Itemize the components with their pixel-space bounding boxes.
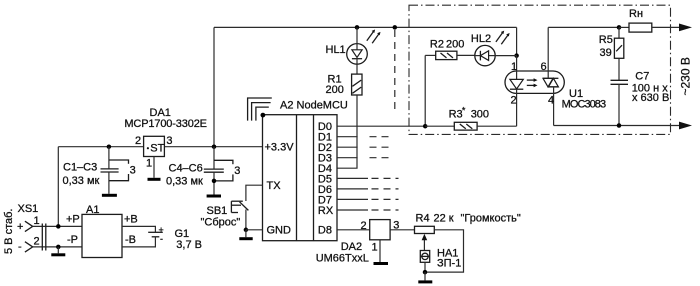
svg-text:C7: C7	[635, 70, 649, 82]
node top bus / HL1	[355, 25, 360, 30]
svg-text:-B: -B	[125, 234, 136, 246]
wire U1 pin6 to Rn	[548, 26, 619, 28]
wire riser from top bus to 3.3V rail	[213, 27, 215, 146]
LED HL1	[326, 27, 381, 74]
svg-text:300: 300	[471, 109, 489, 121]
svg-text:MCP1700-3302E: MCP1700-3302E	[124, 118, 207, 130]
wire D2 stub + dashed continuation	[337, 146, 358, 148]
wire RX stub + dashed continuation	[337, 209, 368, 211]
svg-text:XS1: XS1	[18, 203, 39, 215]
wire D6 stub + dashed continuation	[337, 188, 368, 190]
wire DA2 pin3 to R4	[390, 229, 414, 231]
LED HL2	[471, 31, 517, 66]
svg-text:ЗП-1: ЗП-1	[437, 258, 461, 270]
module A2 NodeMCU	[263, 100, 348, 241]
svg-text:R3: R3	[449, 109, 463, 121]
node XS1 pin2	[56, 245, 61, 250]
svg-text:UM66TxxL: UM66TxxL	[316, 253, 369, 265]
ground XS1	[51, 253, 65, 256]
ground HA1	[418, 280, 432, 283]
resistor R1 200	[326, 73, 363, 96]
wire SB1 node to ground	[245, 230, 247, 237]
svg-text:200: 200	[446, 39, 464, 51]
svg-text:0,33 мк: 0,33 мк	[166, 176, 203, 188]
svg-text:+: +	[17, 221, 23, 233]
svg-text:A2 NodeMCU: A2 NodeMCU	[280, 100, 348, 112]
node top bus / dashed drop	[393, 25, 398, 30]
potentiometer R4 22k	[415, 213, 521, 251]
svg-text:TX: TX	[267, 180, 282, 192]
optocoupler U1 MOC3083	[505, 27, 606, 126]
dimmer module boundary (dash-dot box)	[409, 5, 671, 134]
ground C1-C3	[102, 194, 117, 197]
svg-text:2: 2	[361, 220, 367, 232]
node bottom rail / C7	[617, 123, 622, 128]
svg-text:HL1: HL1	[326, 44, 346, 56]
node XS1 pin1	[56, 224, 61, 229]
svg-text:R2: R2	[430, 39, 444, 51]
svg-text:~230 В: ~230 В	[679, 57, 693, 95]
svg-text:+P: +P	[66, 214, 80, 226]
svg-text:3,7 В: 3,7 В	[176, 239, 202, 251]
wire D3 stub + dashed continuation	[337, 157, 358, 159]
wire XS1 plus riser	[57, 147, 59, 227]
svg-text:-P: -P	[67, 234, 78, 246]
svg-text:C1–C3: C1–C3	[63, 162, 97, 174]
wire R4 right loop to HA1 bottom	[425, 230, 464, 272]
terminal arrow top ~230V	[679, 24, 692, 32]
node C4-C6 bracket bottom	[212, 179, 217, 184]
capacitor C7 100n x 630V	[611, 70, 670, 125]
svg-text:1: 1	[34, 215, 40, 227]
svg-text:R5: R5	[599, 34, 613, 46]
terminal arrow bottom ~230V	[679, 122, 692, 130]
wire DA1 pin1 to ground	[153, 157, 155, 178]
svg-text:HL2: HL2	[471, 33, 491, 45]
resistor Rn (load)	[619, 8, 680, 32]
svg-text:ST: ST	[150, 143, 164, 155]
svg-text:D8: D8	[318, 225, 332, 237]
resistor R5 39	[599, 27, 624, 80]
svg-text:C4–C6: C4–C6	[169, 163, 203, 175]
svg-text:SB1: SB1	[207, 205, 228, 217]
connector XS1	[3, 203, 82, 254]
wire D8 to DA2	[337, 229, 370, 231]
wire R2 riser	[424, 55, 426, 126]
svg-text:DA2: DA2	[341, 241, 362, 253]
node top right / R5	[617, 25, 622, 30]
svg-text:2: 2	[135, 135, 141, 147]
battery G1 3,7V	[122, 225, 202, 251]
resistor R3* 300	[425, 106, 516, 131]
wire top +3.3V bus	[214, 26, 517, 28]
capacitor C1-C3 0,33uk	[63, 147, 136, 194]
wire dashed +3.3V drop for extra modules	[394, 30, 396, 112]
svg-text:0,33 мк: 0,33 мк	[63, 175, 100, 187]
svg-text:2: 2	[34, 236, 40, 248]
ground SB1	[239, 237, 252, 240]
svg-text:4: 4	[548, 95, 554, 107]
regulator DA1 MCP1700-3302E	[124, 107, 207, 170]
svg-text:A1: A1	[86, 204, 99, 216]
svg-text:1: 1	[146, 158, 152, 170]
svg-text:+3.3V: +3.3V	[265, 142, 295, 154]
button SB1 Reset	[201, 185, 263, 230]
ground C4-C6	[207, 195, 221, 198]
ground DA1	[148, 178, 161, 181]
svg-text:Rн: Rн	[629, 8, 643, 20]
svg-text:3: 3	[130, 164, 136, 176]
wire SB1 node to NodeMCU GND	[246, 229, 263, 231]
svg-text:1: 1	[511, 61, 517, 73]
wire HA1 node to ground	[424, 272, 426, 280]
wire D5 stub + dashed continuation	[337, 177, 368, 179]
ground DA2	[374, 262, 389, 265]
node rail / C4-C6 / riser	[212, 144, 217, 149]
node rail / C1-C3	[107, 144, 112, 149]
svg-text:-: -	[160, 234, 163, 244]
wire D0 to dimmer module	[337, 125, 425, 127]
svg-text:1: 1	[372, 242, 378, 254]
IC DA2 UM66TxxL	[316, 220, 400, 265]
svg-text:3: 3	[234, 165, 240, 177]
svg-text:GND: GND	[267, 225, 292, 237]
wire D1 stub + dashed continuation	[337, 136, 358, 138]
svg-text:G1: G1	[175, 228, 190, 240]
node NodeMCU corner / antenna	[261, 113, 266, 118]
svg-text:"Громкость": "Громкость"	[461, 213, 521, 225]
svg-text:-: -	[18, 241, 22, 253]
node R3 / D0 input	[423, 124, 428, 129]
node HA1 / loop	[423, 270, 428, 275]
svg-text:"Сброс": "Сброс"	[201, 217, 241, 229]
wire 3.3V / 5V main rail	[58, 146, 262, 148]
svg-text:2: 2	[511, 95, 517, 107]
svg-text:*: *	[462, 106, 466, 116]
wire DA2 pin1 to ground	[379, 240, 381, 262]
svg-text:22 к: 22 к	[434, 213, 454, 225]
svg-text:R4: R4	[416, 213, 430, 225]
buzzer HA1 ZP-1	[420, 247, 461, 272]
wire U1 pin4 bottom rail	[554, 125, 680, 127]
svg-text:200: 200	[326, 84, 344, 96]
svg-text:RX: RX	[318, 205, 334, 217]
svg-text:+B: +B	[124, 214, 138, 226]
wire R1 to D4	[337, 95, 357, 168]
node SB1 / GND	[244, 228, 249, 233]
svg-text:х 630 В: х 630 В	[632, 92, 669, 104]
antenna of NodeMCU	[248, 98, 272, 121]
wire XS1 pin2 to ground	[57, 247, 59, 253]
node HL2 / U1 pin 1	[514, 53, 519, 58]
svg-text:5 В стаб.: 5 В стаб.	[3, 209, 15, 254]
svg-text:MOC3083: MOC3083	[562, 98, 607, 110]
wire top bus drop into module / U1 pin1	[516, 27, 518, 55]
capacitor C4-C6 0,33uk	[166, 147, 240, 195]
svg-text:39: 39	[600, 47, 612, 59]
svg-text:3: 3	[166, 135, 172, 147]
svg-text:6: 6	[541, 61, 547, 73]
resistor R2 200	[425, 39, 475, 60]
module A1 (power bank board)	[66, 204, 138, 258]
wire D7 stub + dashed continuation	[337, 198, 368, 200]
